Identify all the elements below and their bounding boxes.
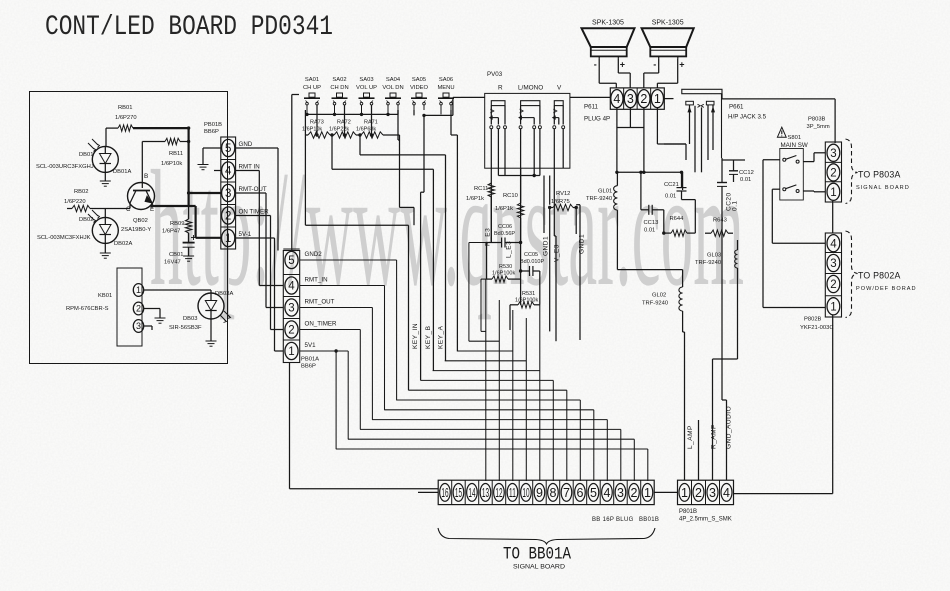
pin 4 PB01B [221,159,236,161]
pin 3 PB01B [221,181,236,183]
pin 3 P611 [636,88,638,109]
svg-text:2SA19B0-Y: 2SA19B0-Y [121,227,151,233]
wire pot outputs [490,129,492,243]
svg-text:5: 5 [225,143,231,155]
wire QB02 collector [129,203,131,209]
wire staircase 1 [481,330,486,332]
svg-text:3: 3 [617,486,624,500]
pin 5 PB01B [221,136,236,138]
pin 2 P801B [691,480,693,504]
pin 10 BB16P [518,480,520,504]
svg-text:RV12: RV12 [556,191,570,197]
svg-text:BB 16P BLUG: BB 16P BLUG [592,517,634,523]
wire BB right stub [654,491,677,493]
svg-text:4: 4 [288,281,295,293]
svg-text:5: 5 [590,486,597,500]
wire DB02 ground [104,243,106,253]
svg-text:2: 2 [830,279,836,291]
pin 1 KB01 [133,284,143,297]
svg-text:ON_TIMER: ON_TIMER [305,321,338,328]
wire switches to pot box [461,96,485,98]
pin 1 PB01A [283,339,299,341]
pin 4 P802A side [827,235,840,252]
svg-text:2: 2 [830,168,836,180]
svg-text:3: 3 [136,321,141,331]
svg-text:RMT IN: RMT IN [239,164,260,171]
wire bus jog [397,110,399,114]
svg-text:3: 3 [709,486,716,500]
svg-text:2: 2 [640,92,647,106]
wire top rail GL block [617,171,683,173]
wire resistor chain [304,110,306,135]
wire DB01 to ground [104,172,106,181]
svg-text:SA01: SA01 [305,77,319,83]
enclosure box left block [30,92,228,364]
wire staircase 6 [421,379,554,381]
connector P801B 4P [678,480,734,504]
pin 15 BB16P [451,480,453,504]
wire staircase source pot2 [469,242,487,244]
ground below DB03 [206,340,217,342]
svg-text:11: 11 [509,486,516,500]
svg-text:KB01: KB01 [98,293,112,299]
pin 2 PB01A [283,318,299,320]
wire RA71 tap down [359,135,361,155]
svg-text:VIDEO: VIDEO [410,85,429,91]
svg-text:L/MONO: L/MONO [518,85,543,92]
svg-text:1/6P22k: 1/6P22k [329,127,349,133]
svg-text:1/6P10k: 1/6P10k [161,161,182,167]
wire staircase 4 [445,360,527,362]
wire L_AMP [682,311,684,332]
wire GND pin5 [203,147,221,149]
svg-text:RC10: RC10 [503,193,518,199]
wire KB01 pin3 [144,325,152,327]
svg-text:DB02A: DB02A [114,241,133,247]
pin 1 P801B [679,484,690,502]
svg-text:1/6P220: 1/6P220 [64,199,86,205]
wire BB left stub [418,491,438,493]
wire staircase 5 [433,370,540,372]
svg-text:4: 4 [225,166,232,178]
wire DB03 ground [210,319,212,341]
pin 12 BB16P [491,480,493,504]
pin 6 BB16P [572,480,574,504]
svg-text:DB02: DB02 [79,217,94,223]
svg-text:PV03: PV03 [487,71,503,78]
svg-text:RMT_IN: RMT_IN [305,277,328,284]
svg-text:R530: R530 [499,264,512,270]
svg-text:1/6P100k: 1/6P100k [492,271,515,277]
wire P802A pin1 down to P801B [832,315,834,494]
pin 7 BB16P [559,480,561,504]
svg-text:1/6P68k: 1/6P68k [356,127,376,133]
wire staircase 12 [348,438,634,440]
svg-text:5V-1: 5V-1 [239,231,252,238]
svg-text:SCL-003MC3FXHJK: SCL-003MC3FXHJK [37,235,91,241]
wire staircase 2 [469,340,499,342]
ground below DB01 [100,180,111,182]
svg-text:3: 3 [830,148,836,160]
wire SA06 branch [450,110,452,135]
pin 4 PB01A [283,274,299,276]
svg-text:4: 4 [723,486,730,500]
wire emitter to 5V-1 thick [195,206,197,238]
wire pin4 RMT IN stub [214,170,221,172]
wire S801 pole1 left [763,159,780,161]
svg-text:2: 2 [630,486,637,500]
bracket TO P802A [846,231,858,318]
svg-text:SIGNAL BOARD: SIGNAL BOARD [856,185,910,191]
pin 2 P611 [650,88,652,109]
pin 1 P611 [651,90,663,108]
wire CB01 ground [188,247,190,256]
ground below DB02 [100,252,111,254]
pin 9 BB16P [532,480,534,504]
svg-text:V: V [557,85,562,92]
wire speaker2 plus [677,59,679,84]
ground near PB01B [198,164,209,166]
svg-text:RC11: RC11 [474,186,488,192]
svg-text:GL02: GL02 [652,293,666,299]
svg-text:PB01B: PB01B [204,122,222,128]
wire S801 throw1 right [803,161,814,163]
pin 3 P802A side [825,252,841,254]
pin 2 PB01B [221,204,236,206]
svg-text:GL01: GL01 [598,189,612,195]
svg-text:PLUG 4P: PLUG 4P [584,116,610,123]
svg-text:R531: R531 [522,291,535,297]
connector BB01B 16P [438,480,654,504]
wire RB01 to node (thick) [133,127,189,129]
svg-text:R_E3: R_E3 [485,228,492,246]
wire jack top rail [721,94,723,99]
svg-text:SIR-56SB3F: SIR-56SB3F [169,325,202,331]
svg-text:TO P802A: TO P802A [858,271,901,281]
svg-text:GL03: GL03 [707,253,721,259]
svg-text:TO BB01A: TO BB01A [503,545,571,565]
svg-text:15: 15 [455,486,462,500]
svg-text:7: 7 [563,486,570,500]
wire extra branch [335,351,337,449]
pin 4 P801B [719,480,721,504]
svg-text:+: + [620,60,625,70]
wire GL block left [617,269,682,271]
svg-text:VOL UP: VOL UP [356,85,377,91]
wire staircase 9 [384,409,594,411]
brace TO BB01A [438,528,655,544]
svg-text:R: R [498,85,503,92]
svg-text:SA06: SA06 [439,77,453,83]
wire staircase 7 [408,389,566,391]
svg-text:4: 4 [613,92,620,106]
wire speaker1 plus [617,59,619,73]
wire staircase source pot1 [481,278,487,280]
svg-text:RMT-OUT: RMT-OUT [239,186,267,193]
svg-text:KEY_IN: KEY_IN [412,323,419,349]
svg-text:1/6P100k: 1/6P100k [515,298,538,304]
svg-text:DB01A: DB01A [113,169,132,175]
wire RMT-OUT right [236,192,266,194]
wire GND2 bus [292,94,299,96]
svg-text:CC06: CC06 [498,224,512,230]
svg-text:KEY_B: KEY_B [425,326,432,349]
svg-text:5: 5 [288,255,294,267]
wire KB01 pin2 [144,308,160,310]
svg-text:Bd0.010P: Bd0.010P [520,259,544,265]
svg-text:R643: R643 [713,218,727,224]
svg-text:4: 4 [603,486,610,500]
svg-text:3: 3 [225,188,231,200]
connector P802A pins [825,233,841,317]
wire P803B pin1 to P802A pin4 [832,201,834,233]
svg-text:1: 1 [830,301,836,313]
svg-text:DB03: DB03 [183,316,198,322]
wire PB01A pin2 branch [300,329,361,331]
svg-text:0.01: 0.01 [665,194,676,200]
pin 1 P802A side [825,295,841,297]
svg-text:QB02: QB02 [133,218,148,224]
wire staircase 11 [360,428,621,430]
transistor QB02 2SA19B0-Y [128,183,155,210]
svg-text:P801B: P801B [679,509,697,515]
pin 14 BB16P [464,480,466,504]
bracket TO P803A [846,139,858,204]
pin 1 P803B [825,181,841,183]
wire CC05 [521,270,530,272]
svg-text:L_E3: L_E3 [506,241,513,258]
svg-text:SA03: SA03 [359,77,373,83]
svg-text:H/P JACK 3.5: H/P JACK 3.5 [728,114,767,121]
svg-text:RB01: RB01 [118,105,133,111]
wire PB01A pin1 branch [300,350,349,352]
svg-text:14: 14 [468,486,475,500]
svg-text:KEY_A: KEY_A [438,325,445,349]
svg-text:SA02: SA02 [332,77,346,83]
wire ON TIMER right [236,215,271,217]
svg-text:+: + [679,60,684,70]
wire P611 pin4 down [616,108,618,173]
pin 2 P803B [825,161,841,163]
svg-text:CC12: CC12 [739,170,754,176]
svg-text:1: 1 [681,486,688,500]
svg-text:SA05: SA05 [412,77,426,83]
svg-text:SCL-003URC3FXGHJ: SCL-003URC3FXGHJ [36,164,94,170]
wire pot box to P611 [570,96,610,98]
svg-text:P661: P661 [729,104,744,111]
svg-text:5V1: 5V1 [305,342,317,349]
svg-text:SPK-1305: SPK-1305 [652,20,684,27]
wire GND_AUDIO [726,400,728,480]
svg-text:0.1: 0.1 [732,200,739,211]
pin 4 BB16P [599,480,601,504]
svg-text:-: - [653,60,656,70]
wire QB02 emitter thick [151,203,153,206]
wire RB09 [188,206,190,219]
pin 3 P801B [705,480,707,504]
wire staircase 10 [372,419,607,421]
svg-text:2: 2 [695,486,702,500]
pin 4 P611 [623,88,625,109]
pin 13 BB16P [478,480,480,504]
svg-text:TRF-9240: TRF-9240 [695,260,721,266]
svg-text:Bd0.56P: Bd0.56P [494,231,515,237]
pin 1 BB16P [640,480,642,504]
wire thick node B [188,128,190,206]
pot L/MONO PV03 [521,101,540,106]
svg-text:4: 4 [830,238,837,250]
svg-text:POW/DEF BORAD: POW/DEF BORAD [856,286,917,292]
svg-text:1: 1 [136,285,141,295]
svg-text:BB6P: BB6P [204,129,219,135]
wire pot link [504,168,506,175]
wire R_AMP [713,358,738,360]
pin 3 KB01 [133,320,143,333]
svg-text:3: 3 [627,92,634,106]
wire staircase 8 [396,399,580,401]
wire GND right [236,147,278,149]
svg-text:CH UP: CH UP [303,85,321,91]
svg-text:CC05: CC05 [524,252,538,258]
wire RB02 [67,208,72,210]
svg-text:GND1: GND1 [543,236,550,256]
svg-text:SPK-1305: SPK-1305 [592,20,624,27]
jack contacts verticals [689,105,691,144]
svg-text:R_AMP: R_AMP [711,424,718,449]
svg-text:CB01: CB01 [169,252,184,258]
svg-text:1: 1 [225,233,231,245]
watermark [150,136,744,320]
led DB03 SIR-56SB3F [198,293,224,319]
svg-text:1/6P1k: 1/6P1k [466,196,484,202]
wire PB01A pin5 branch [300,259,397,261]
wire PB01A pin4 branch [300,285,385,287]
svg-text:MAIN SW: MAIN SW [781,142,808,149]
wire P611 pin3 down [617,127,644,129]
svg-text:12: 12 [495,486,502,500]
wire switch common bus [307,113,398,115]
svg-text:2: 2 [288,325,294,337]
svg-text:TRF-9240: TRF-9240 [642,301,668,307]
svg-text:3: 3 [288,303,294,315]
svg-text:1/6P270: 1/6P270 [115,115,137,121]
svg-text:BB6P: BB6P [301,364,316,370]
wire node B to RMT-OUT thick [189,192,221,194]
pin 3 PB01A [283,296,299,298]
wire P611 pin1 down [656,108,658,144]
svg-text:P803B: P803B [808,117,826,123]
wire RA72 tap down [331,135,333,169]
wire speaker2 minus [658,59,660,73]
pin 2 P802A side [825,273,841,275]
pin 5 PB01A [283,248,299,250]
svg-text:YKF21-003C: YKF21-003C [800,325,834,331]
ground below CB01 [183,255,194,257]
svg-text:8: 8 [549,486,556,500]
svg-text:R644: R644 [670,216,685,222]
svg-text:S801: S801 [788,135,802,141]
wire 5V-1 right [236,237,275,239]
svg-text:1: 1 [288,346,294,358]
svg-text:RB11: RB11 [169,151,183,157]
svg-text:1: 1 [644,486,651,500]
pin 11 BB16P [505,480,507,504]
svg-text:2: 2 [225,211,231,223]
svg-text:2: 2 [136,304,141,314]
svg-text:VOL DN: VOL DN [382,85,403,91]
svg-text:TO P803A: TO P803A [858,170,901,180]
svg-text:GND: GND [239,141,253,148]
svg-text:3: 3 [830,258,836,270]
pin 8 BB16P [545,480,547,504]
wire R_E3 [487,242,502,244]
pin 5 BB16P [586,480,588,504]
svg-text:ON TIMER: ON TIMER [239,209,270,216]
pot V PV03 [554,101,563,106]
svg-text:DB03A: DB03A [215,291,234,297]
svg-text:10: 10 [522,486,529,500]
svg-text:1: 1 [830,187,836,199]
svg-text:PB01A: PB01A [301,357,319,363]
pin 16 BB16P [440,484,451,502]
wire jack sleeve net [685,144,687,160]
svg-text:1/6P47: 1/6P47 [162,229,180,235]
ground KB01 pin2 [155,317,166,319]
svg-text:V_E3: V_E3 [554,244,561,262]
pin 2 KB01 [133,302,143,315]
svg-text:1: 1 [654,92,661,106]
svg-text:6: 6 [576,486,583,500]
wire PB01A pin1 to BB pin16 [289,363,291,489]
svg-text:SA04: SA04 [386,77,401,83]
wire SA05 branch [423,115,425,192]
warning triangle [777,127,786,137]
wire P611 pin2 down [643,108,645,173]
wire RA73 tap down [304,135,306,225]
svg-text:B: B [144,173,148,180]
svg-text:13: 13 [482,486,489,500]
sensor KB01 RPM-676CBR-S [117,268,142,346]
svg-text:0.01: 0.01 [644,228,655,234]
photodiode DB01 SCL-003URC3FXGHJ [92,146,118,172]
svg-text:RB02: RB02 [74,189,89,195]
svg-text:TRF-9240: TRF-9240 [586,196,612,202]
svg-text:1/6P1k: 1/6P1k [495,206,513,212]
svg-text:MENU: MENU [437,85,454,91]
wire KB01 pin1 to DB03 [144,289,211,291]
pin 1 PB01B [221,226,236,228]
wire PB01A pin3 branch [300,307,373,309]
wire S801 throw2 right [803,190,814,192]
wire pin2 P801B [698,420,700,480]
photodiode DB02 SCL-003MC3FXHJK [92,217,118,243]
svg-text:4P_2.5mm_S_SMK: 4P_2.5mm_S_SMK [679,517,732,523]
wire speaker1 minus [598,59,600,84]
wire P611 left stub [664,98,673,100]
wire S801 pole2 left [772,188,780,190]
pot R PV03 [491,101,505,106]
svg-text:P802B: P802B [804,317,822,323]
wire RMT IN right [236,170,260,172]
svg-text:RPM-676CBR-S: RPM-676CBR-S [66,306,109,312]
svg-text:16V47: 16V47 [164,260,181,266]
wire staircase 13 [336,448,648,450]
svg-text:RB09: RB09 [170,221,185,227]
svg-text:CC13: CC13 [644,220,659,226]
pin 3 BB16P [613,480,615,504]
svg-text:SIGNAL BOARD: SIGNAL BOARD [513,564,566,571]
svg-text:DB01: DB01 [79,152,94,158]
